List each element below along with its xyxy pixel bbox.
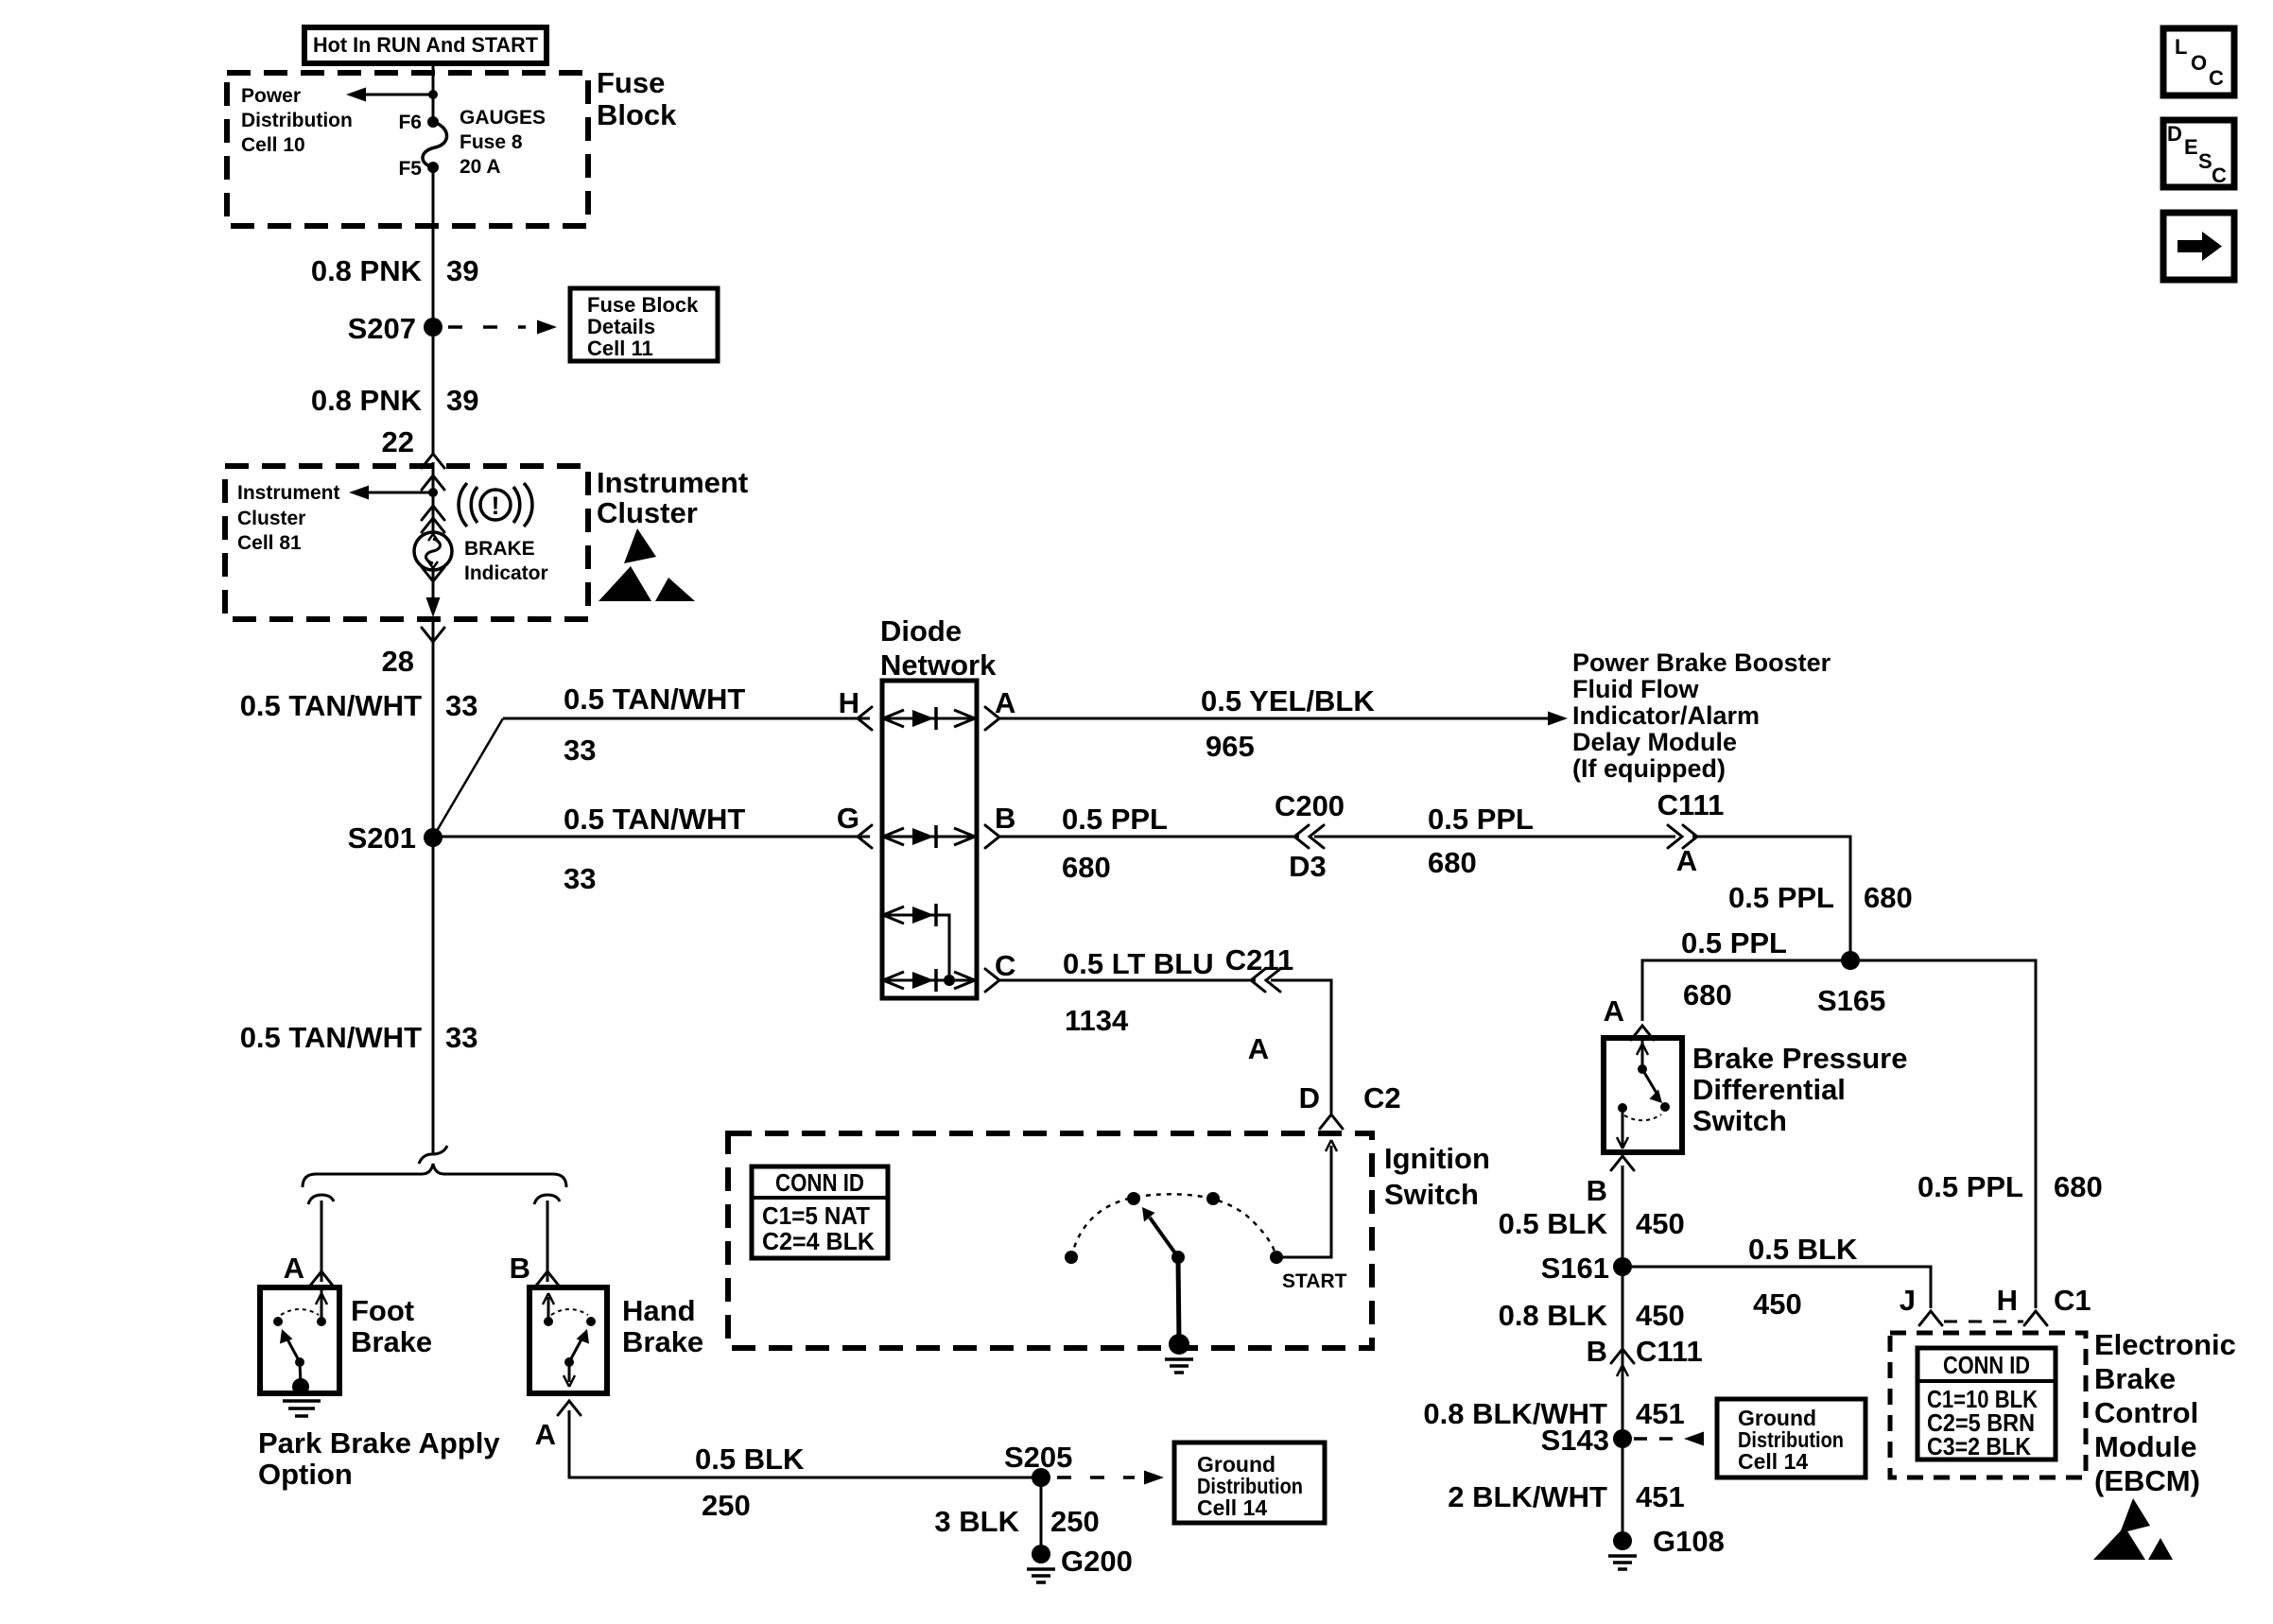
connector chevron H	[2024, 1311, 2047, 1325]
wire label 0.8 BLK 450	[1499, 1299, 1685, 1332]
svg-text:F6: F6	[398, 112, 422, 133]
ignition CONN ID table	[752, 1166, 888, 1258]
svg-text:A: A	[535, 1418, 556, 1451]
svg-text:C: C	[2209, 66, 2224, 90]
svg-text:2 BLK/WHT: 2 BLK/WHT	[1448, 1480, 1607, 1513]
wire end bracket	[419, 1146, 447, 1164]
dashed arrow S207 to Fuse Block Details	[448, 320, 557, 335]
connector B C111 chevron and arrow	[1611, 1349, 1634, 1376]
svg-text:Cell 11: Cell 11	[587, 337, 653, 360]
connector chevron A switch	[1631, 1026, 1654, 1040]
wire label 0.5 TAN/WHT 33	[240, 1021, 478, 1054]
label Power Brake Booster Fluid Flow Indicator/Alarm Delay Module	[1572, 648, 1831, 783]
ground G108	[1608, 1525, 1725, 1569]
svg-text:BRAKE: BRAKE	[464, 538, 535, 560]
node Ground Distribution Cell 14 left	[1174, 1443, 1325, 1523]
svg-text:C3=2 BLK: C3=2 BLK	[1927, 1432, 2031, 1460]
svg-text:S165: S165	[1817, 984, 1885, 1017]
svg-text:Switch: Switch	[1384, 1178, 1479, 1211]
svg-text:Cluster: Cluster	[237, 508, 305, 529]
svg-text:0.5 TAN/WHT: 0.5 TAN/WHT	[240, 689, 422, 722]
svg-text:250: 250	[1050, 1505, 1100, 1538]
brake pressure differential switch box	[1604, 1038, 1682, 1152]
connector D C2	[1299, 1081, 1401, 1129]
svg-text:S143: S143	[1541, 1424, 1609, 1457]
svg-text:680: 680	[1428, 846, 1477, 879]
wire label 0.5 PPL 680 vertical	[1728, 881, 1913, 914]
svg-text:0.5 BLK: 0.5 BLK	[1748, 1233, 1858, 1266]
wire label 0.8 BLK/WHT 451	[1423, 1397, 1684, 1430]
svg-text:Switch: Switch	[1692, 1104, 1787, 1137]
connector chevron J	[1919, 1311, 1942, 1325]
svg-text:0.8 PNK: 0.8 PNK	[311, 254, 423, 287]
fuse block dashed box	[227, 73, 588, 226]
legend DESC box	[2163, 120, 2234, 187]
svg-text:Electronic: Electronic	[2094, 1328, 2236, 1361]
wire into cluster	[432, 462, 435, 532]
svg-text:C: C	[995, 949, 1015, 982]
wire label 0.5 TAN/WHT 33 lower branch	[564, 803, 745, 895]
svg-text:Network: Network	[880, 648, 997, 682]
svg-text:C1=5 NAT: C1=5 NAT	[762, 1201, 870, 1230]
wire C to C211	[998, 979, 1256, 982]
connector chevron A	[985, 707, 999, 730]
wire to foot brake	[321, 1201, 323, 1282]
pin B connector C111	[1587, 1335, 1703, 1368]
svg-text:(If equipped): (If equipped)	[1572, 754, 1726, 783]
connector chevron into cluster	[422, 475, 444, 490]
svg-text:F5: F5	[398, 158, 422, 180]
svg-text:C111: C111	[1657, 788, 1725, 821]
wire label 0.5 LT BLU 1134	[1063, 947, 1214, 1037]
wire label 0.8 PNK 39	[311, 384, 479, 417]
diode D1 row H-A	[882, 707, 977, 730]
node S161	[1541, 1252, 1632, 1285]
svg-text:680: 680	[1864, 881, 1913, 914]
node S205	[1004, 1441, 1072, 1487]
wire C211 to ignition switch D	[1271, 980, 1331, 1114]
svg-text:C211: C211	[1225, 943, 1293, 976]
wire START to D	[1276, 1140, 1337, 1257]
svg-text:A: A	[284, 1252, 304, 1285]
svg-text:S201: S201	[348, 821, 416, 855]
wire S165 left branch to switch A	[1642, 960, 1850, 1021]
EBCM CONN ID table	[1917, 1348, 2056, 1460]
svg-text:0.5 LT BLU: 0.5 LT BLU	[1063, 947, 1214, 980]
svg-text:A: A	[1676, 844, 1697, 877]
svg-text:E: E	[2184, 135, 2198, 159]
svg-text:Foot: Foot	[351, 1294, 414, 1327]
svg-text:Power Brake Booster: Power Brake Booster	[1572, 648, 1831, 677]
connector chevrons pair	[422, 506, 444, 532]
svg-text:3 BLK: 3 BLK	[934, 1505, 1019, 1538]
svg-text:Cell 10: Cell 10	[241, 134, 305, 156]
connector C200 D3	[1275, 789, 1345, 883]
svg-text:Instrument: Instrument	[597, 466, 748, 499]
wire label 0.5 PPL 680	[1062, 803, 1168, 884]
connector chevron C	[985, 969, 999, 992]
connector chevron foot brake A	[310, 1271, 333, 1286]
svg-text:C2: C2	[1363, 1081, 1401, 1114]
node S201	[348, 821, 442, 855]
svg-text:39: 39	[446, 254, 478, 287]
svg-text:Instrument: Instrument	[237, 482, 340, 504]
wire label 0.5 PPL 680 right vertical	[1917, 1170, 2103, 1203]
wire S201 to diode G	[433, 836, 870, 838]
svg-text:250: 250	[702, 1489, 751, 1522]
svg-text:Indicator: Indicator	[464, 562, 548, 584]
svg-text:450: 450	[1753, 1287, 1802, 1321]
svg-text:C: C	[2212, 164, 2227, 187]
node Hot In RUN And START	[304, 27, 547, 63]
svg-text:Details: Details	[587, 315, 655, 338]
svg-text:Fluid Flow: Fluid Flow	[1572, 675, 1699, 703]
wire label 0.5 PPL 680	[1428, 803, 1534, 879]
svg-text:0.5 BLK: 0.5 BLK	[695, 1443, 805, 1476]
diode D4 row C	[882, 969, 977, 992]
dashed arrow S143 to ground distribution	[1634, 1432, 1704, 1446]
svg-text:450: 450	[1636, 1299, 1685, 1332]
label Ignition Switch	[1384, 1142, 1490, 1211]
label Foot Brake	[351, 1294, 432, 1358]
svg-text:Cluster: Cluster	[597, 496, 698, 529]
svg-text:Fuse Block: Fuse Block	[587, 293, 699, 317]
svg-text:965: 965	[1206, 730, 1255, 763]
svg-text:Diode: Diode	[880, 614, 962, 648]
svg-text:0.5 YEL/BLK: 0.5 YEL/BLK	[1201, 684, 1375, 717]
node S165	[1817, 951, 1885, 1017]
svg-text:Ignition: Ignition	[1384, 1142, 1490, 1175]
lamp BRAKE indicator	[414, 532, 452, 570]
svg-text:33: 33	[445, 689, 477, 722]
switch internals	[1617, 1038, 1670, 1149]
wire label 0.5 BLK 250	[695, 1443, 805, 1522]
arrow down to box edge	[426, 597, 441, 617]
wire B to C200	[998, 836, 1299, 838]
wire label 0.5 BLK 450 horizontal	[1748, 1233, 1858, 1321]
ground foot brake	[283, 1401, 321, 1416]
label GAUGES Fuse 8 20 A	[460, 107, 546, 178]
label Hand Brake	[622, 1294, 703, 1358]
wire lamp to box bottom	[432, 570, 435, 613]
svg-text:S: S	[2198, 149, 2212, 173]
legend arrow box	[2163, 213, 2234, 280]
svg-text:L: L	[2175, 35, 2187, 59]
label Instrument Cluster	[597, 466, 748, 529]
svg-text:Cell 81: Cell 81	[237, 532, 302, 554]
wire label 0.5 PPL 680 left branch	[1681, 926, 1787, 1011]
ground ignition switch	[1165, 1359, 1193, 1373]
svg-text:B: B	[510, 1252, 530, 1285]
branch bracket A	[308, 1195, 334, 1204]
foot brake switch internals	[273, 1287, 327, 1395]
svg-text:Block: Block	[597, 98, 677, 131]
wire S161 to EBCM J	[1622, 1267, 1931, 1308]
wire label 0.5 BLK 450	[1499, 1207, 1685, 1240]
label Fuse Block	[597, 66, 677, 131]
svg-text:START: START	[1282, 1270, 1347, 1292]
wire label 2 BLK/WHT 451	[1448, 1480, 1685, 1513]
legend LOC box	[2163, 28, 2234, 95]
svg-text:A: A	[1604, 994, 1624, 1028]
svg-text:0.5 PPL: 0.5 PPL	[1728, 881, 1834, 914]
svg-text:Differential: Differential	[1692, 1073, 1846, 1106]
svg-text:Module: Module	[2094, 1430, 2197, 1463]
svg-text:D3: D3	[1289, 850, 1327, 883]
svg-text:0.5 PPL: 0.5 PPL	[1917, 1170, 2023, 1203]
svg-text:28: 28	[382, 645, 414, 678]
wire F5 to S207 to instrument cluster	[432, 167, 435, 454]
wire S201 branch to diode H	[503, 717, 870, 720]
svg-text:0.5 PPL: 0.5 PPL	[1062, 803, 1168, 836]
wire label 0.5 TAN/WHT 33	[240, 689, 478, 722]
wire label 0.5 YEL/BLK 965	[1201, 684, 1375, 763]
svg-text:A: A	[995, 686, 1015, 719]
svg-text:(EBCM): (EBCM)	[2094, 1464, 2200, 1497]
label Electronic Brake Control Module (EBCM)	[2094, 1328, 2236, 1497]
brake warning symbol ((!))	[459, 483, 532, 527]
connector C211 A	[1225, 943, 1293, 1065]
wire to hand brake	[547, 1201, 549, 1282]
connector chevron hand brake B	[536, 1271, 559, 1286]
ignition switch dashed box	[728, 1133, 1372, 1348]
svg-text:20 A: 20 A	[460, 156, 501, 178]
svg-text:0.8 PNK: 0.8 PNK	[311, 384, 423, 417]
svg-text:Fuse: Fuse	[597, 66, 665, 99]
arrow to Power Distribution	[346, 88, 438, 102]
svg-text:Brake: Brake	[2094, 1362, 2176, 1395]
branch bracket B	[534, 1195, 560, 1204]
svg-text:B: B	[1587, 1335, 1607, 1368]
connector chevron G	[858, 825, 872, 848]
svg-text:CONN ID: CONN ID	[1943, 1351, 2030, 1379]
wire C200 to C111	[1314, 836, 1675, 838]
svg-text:S161: S161	[1541, 1252, 1609, 1285]
svg-text:451: 451	[1636, 1397, 1685, 1430]
svg-text:1134: 1134	[1065, 1004, 1129, 1037]
wire switch B to S161 to S143 to G108	[1622, 1166, 1624, 1541]
svg-text:451: 451	[1636, 1480, 1685, 1513]
svg-text:C200: C200	[1275, 789, 1345, 822]
svg-text:C1: C1	[2054, 1284, 2091, 1317]
svg-text:C2=4 BLK: C2=4 BLK	[762, 1227, 875, 1255]
svg-text:Distribution: Distribution	[241, 110, 353, 131]
wire out of cluster to S201	[432, 619, 435, 1154]
svg-text:B: B	[995, 802, 1015, 835]
svg-text:33: 33	[445, 1021, 477, 1054]
connector C111 A	[1657, 788, 1725, 877]
label Park Brake Apply Option	[258, 1426, 500, 1491]
ESD symbol EBCM	[2093, 1498, 2173, 1560]
svg-text:D: D	[1299, 1081, 1320, 1114]
svg-text:C111: C111	[1636, 1335, 1703, 1368]
wire A to delay module	[998, 717, 1549, 720]
svg-text:G200: G200	[1061, 1545, 1133, 1578]
diode D3 internal row	[882, 904, 949, 980]
ignition switch rotary	[1065, 1192, 1283, 1355]
svg-text:0.5 TAN/WHT: 0.5 TAN/WHT	[564, 803, 745, 836]
svg-text:!: !	[492, 492, 500, 520]
label BRAKE Indicator	[464, 538, 548, 584]
wire S165 right branch to EBCM H	[1850, 960, 2036, 1308]
svg-text:Hot In RUN And START: Hot In RUN And START	[313, 33, 539, 57]
svg-text:Brake: Brake	[351, 1325, 432, 1358]
connector chevron below cluster	[422, 628, 444, 642]
svg-text:Option: Option	[258, 1458, 353, 1491]
svg-text:33: 33	[564, 862, 596, 895]
foot brake switch box	[260, 1287, 339, 1393]
svg-text:S207: S207	[348, 312, 416, 345]
svg-text:0.5 BLK: 0.5 BLK	[1499, 1207, 1608, 1240]
label Power Distribution Cell 10	[241, 85, 353, 156]
diode D2 row G-B	[882, 825, 977, 848]
svg-text:Hand: Hand	[622, 1294, 696, 1327]
dashed arrow S205 to ground distribution	[1057, 1471, 1164, 1485]
hand brake switch internals	[543, 1293, 596, 1387]
ground G200	[1027, 1545, 1133, 1582]
svg-text:B: B	[1587, 1174, 1607, 1207]
svg-text:39: 39	[446, 384, 478, 417]
instrument cluster dashed box	[225, 466, 588, 619]
connector chevron H	[858, 707, 872, 730]
arrow to Instrument Cluster Cell 81	[349, 486, 438, 500]
svg-text:450: 450	[1636, 1207, 1685, 1240]
fuse F8 GAUGES 20A	[423, 116, 447, 173]
connector chevron hand brake A out	[558, 1401, 581, 1415]
node S143	[1541, 1424, 1632, 1457]
svg-text:CONN ID: CONN ID	[775, 1168, 864, 1197]
ESD symbol instrument cluster	[599, 528, 695, 601]
svg-text:Cell 14: Cell 14	[1738, 1449, 1808, 1474]
svg-text:Park Brake Apply: Park Brake Apply	[258, 1426, 500, 1460]
wire C111 to S165	[1692, 837, 1850, 960]
wire label 3 BLK 250	[934, 1505, 1099, 1538]
diode network box	[880, 614, 997, 998]
connector chevron below lamp	[422, 567, 444, 581]
svg-text:A: A	[1248, 1032, 1269, 1065]
svg-text:0.5 TAN/WHT: 0.5 TAN/WHT	[240, 1021, 422, 1054]
svg-text:GAUGES: GAUGES	[460, 107, 546, 129]
svg-text:22: 22	[382, 425, 414, 458]
svg-text:33: 33	[564, 734, 596, 767]
svg-text:0.5 PPL: 0.5 PPL	[1428, 803, 1534, 836]
arrow into delay module	[1548, 712, 1568, 726]
svg-text:680: 680	[2054, 1170, 2103, 1203]
wire hand brake to S205	[569, 1410, 1032, 1477]
label Instrument Cluster Cell 81	[237, 482, 340, 554]
svg-text:O: O	[2191, 51, 2207, 75]
connector chevron B	[985, 825, 999, 848]
svg-text:Fuse 8: Fuse 8	[460, 131, 523, 153]
node S207	[348, 312, 442, 345]
EBCM dashed box	[1890, 1333, 2086, 1477]
svg-text:0.5 PPL: 0.5 PPL	[1681, 926, 1787, 959]
split brace	[303, 1164, 566, 1187]
svg-text:Indicator/Alarm: Indicator/Alarm	[1572, 701, 1760, 730]
wire label 0.8 PNK 39	[311, 254, 479, 287]
svg-text:Cell 14: Cell 14	[1197, 1495, 1267, 1520]
svg-text:Brake: Brake	[622, 1325, 703, 1358]
hand brake switch box	[529, 1287, 607, 1393]
svg-text:0.8 BLK: 0.8 BLK	[1499, 1299, 1608, 1332]
svg-text:0.5 TAN/WHT: 0.5 TAN/WHT	[564, 682, 745, 716]
svg-text:D: D	[2167, 122, 2182, 146]
node Ground Distribution Cell 14 right	[1717, 1399, 1865, 1477]
svg-text:J: J	[1900, 1284, 1916, 1317]
dashed link J to H	[1944, 1321, 2023, 1323]
label Brake Pressure Differential Switch	[1692, 1042, 1908, 1137]
wire label 0.5 TAN/WHT 33 upper branch	[564, 682, 745, 767]
svg-text:G108: G108	[1653, 1525, 1725, 1558]
wire diagonal S201 to H row	[434, 718, 503, 836]
svg-text:H: H	[1997, 1284, 2018, 1317]
svg-text:S205: S205	[1004, 1441, 1072, 1474]
connector chevron 22	[422, 454, 444, 468]
wire S205 to G200	[1040, 1477, 1043, 1554]
svg-text:Brake Pressure: Brake Pressure	[1692, 1042, 1908, 1075]
svg-text:G: G	[837, 802, 859, 835]
svg-text:H: H	[839, 686, 859, 719]
svg-text:Delay Module: Delay Module	[1572, 728, 1737, 756]
node Fuse Block Details Cell 11	[570, 288, 718, 361]
svg-text:680: 680	[1062, 851, 1111, 884]
connector chevron B switch	[1611, 1156, 1634, 1170]
svg-text:680: 680	[1683, 978, 1732, 1011]
wire from Hot In RUN box to fuse F6	[432, 63, 435, 122]
svg-text:Control: Control	[2094, 1396, 2198, 1429]
svg-text:Power: Power	[241, 85, 301, 107]
